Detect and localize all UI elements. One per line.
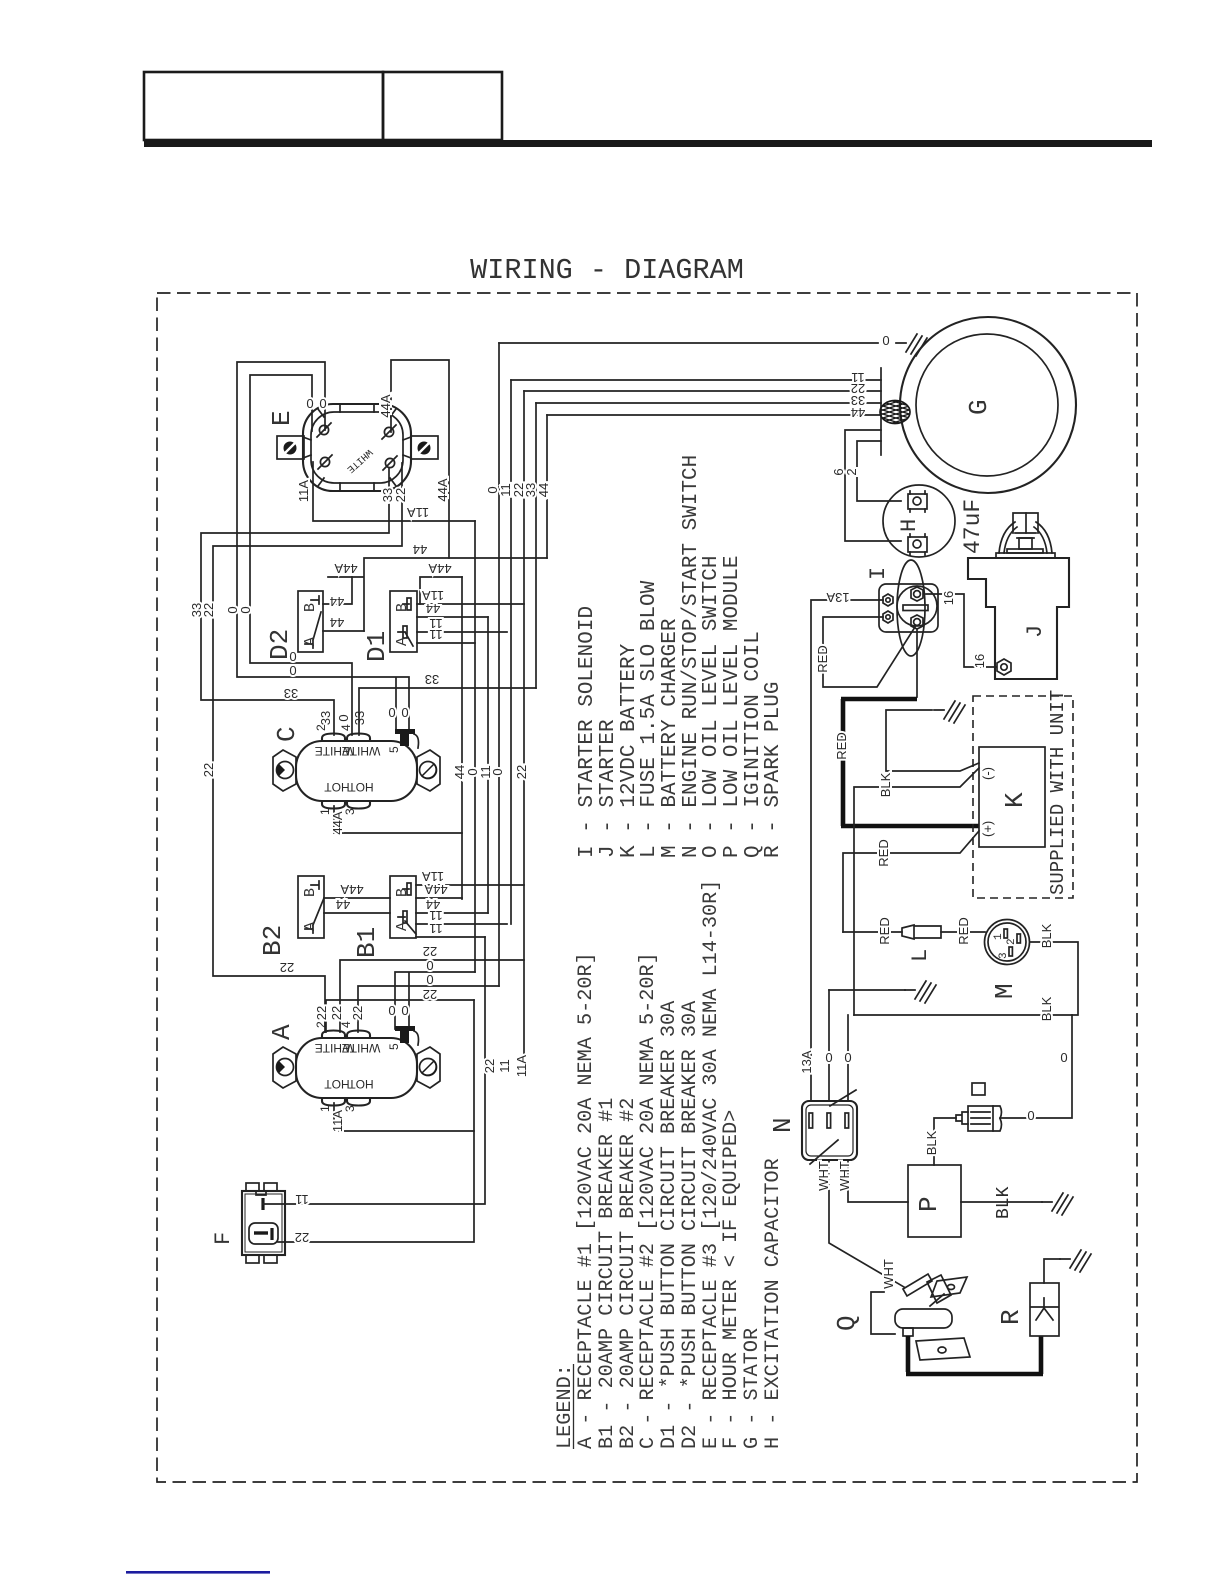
oil switch right wire 0: [1000, 1015, 1072, 1118]
svg-text:A: A: [394, 637, 411, 646]
solenoid hex terminal top: [911, 587, 923, 601]
svg-text:D2: D2: [265, 629, 295, 660]
footer blue rule: [126, 1571, 270, 1574]
wire 11 D1: [417, 631, 507, 633]
svg-text:B: B: [302, 603, 319, 612]
svg-text:44: 44: [426, 601, 440, 616]
WHT wires from switch N: [829, 1160, 904, 1287]
vertical bus 33: [535, 403, 537, 688]
starter J top cap details: [996, 513, 1055, 558]
svg-text:11: 11: [497, 1059, 512, 1073]
wire 2 to capacitor: [857, 441, 901, 501]
svg-text:33: 33: [284, 686, 298, 701]
breaker D1: [390, 591, 417, 652]
svg-text:BLK: BLK: [924, 1130, 939, 1155]
svg-text:33: 33: [318, 711, 333, 725]
solenoid inner circle: [897, 586, 937, 626]
svg-text:BLK: BLK: [994, 1186, 1014, 1219]
svg-text:44A: 44A: [334, 561, 357, 576]
svg-text:BLK: BLK: [878, 772, 893, 797]
oil level switch O: [956, 1083, 1002, 1131]
spark plug R: [1030, 1283, 1059, 1336]
wire 44A from C: [334, 806, 462, 833]
starter solenoid I body: [879, 584, 938, 632]
svg-text:P: P: [914, 1196, 944, 1212]
svg-text:N: N: [768, 1117, 798, 1133]
wire 33 from E to left bus to C: [201, 468, 389, 735]
svg-text:11: 11: [429, 908, 443, 923]
wire run 0b above A: [358, 986, 499, 1032]
svg-text:HOT: HOT: [348, 780, 374, 794]
svg-text:44A: 44A: [340, 882, 363, 897]
svg-text:D1: D1: [362, 631, 392, 662]
wire run 22 above A: [340, 960, 524, 1032]
breaker B2: [298, 876, 324, 938]
svg-text:11: 11: [295, 1192, 309, 1207]
svg-text:R - SPARK PLUG: R - SPARK PLUG: [762, 682, 785, 858]
svg-text:44: 44: [536, 483, 551, 497]
svg-text:16: 16: [972, 654, 987, 668]
dashed diagram border: [157, 293, 1137, 1482]
svg-text:0: 0: [401, 1003, 408, 1018]
svg-text:33: 33: [425, 672, 439, 687]
ground at stator top: [896, 334, 927, 356]
svg-text:D1 - *PUSH BUTTON CIRCUIT BREA: D1 - *PUSH BUTTON CIRCUIT BREAKER 30A: [658, 1000, 681, 1449]
svg-text:3: 3: [998, 952, 1010, 959]
svg-text:22: 22: [280, 960, 294, 975]
stator G outer circle: [900, 317, 1076, 493]
svg-text:22: 22: [295, 1230, 309, 1245]
svg-text:HOT: HOT: [348, 1077, 374, 1091]
svg-text:44: 44: [336, 897, 350, 912]
svg-text:RED: RED: [815, 645, 830, 672]
svg-text:C: C: [272, 726, 302, 742]
ground wire mid: [829, 989, 905, 991]
svg-text:0: 0: [1060, 1050, 1067, 1065]
battery negative BLK wire: [854, 768, 979, 1015]
capacitor H terminal bottom: [908, 534, 927, 555]
vertical bus 0c: [474, 521, 476, 972]
ground mid: [905, 981, 936, 1003]
svg-text:R: R: [996, 1309, 1026, 1325]
svg-text:F - HOUR METER < IF EQUIPED>: F - HOUR METER < IF EQUIPED>: [720, 1110, 743, 1449]
svg-text:O - LOW OIL LEVEL SWITCH: O - LOW OIL LEVEL SWITCH: [700, 556, 723, 858]
svg-text:G: G: [964, 399, 994, 415]
vertical bus 44 top: [546, 415, 548, 558]
wire 33 to bus: [359, 688, 536, 735]
wire 11A D1.B: [417, 603, 524, 605]
svg-text:22: 22: [314, 1006, 329, 1020]
wire 44A right: [420, 577, 462, 604]
svg-text:RED: RED: [834, 732, 849, 759]
oil switch left wire BLK down to P: [934, 1118, 956, 1165]
stator lead hatched blob: [876, 396, 916, 432]
svg-text:44A: 44A: [330, 811, 345, 834]
svg-text:0: 0: [490, 768, 505, 775]
svg-text:D2 - *PUSH BUTTON CIRCUIT BREA: D2 - *PUSH BUTTON CIRCUIT BREAKER 30A: [679, 1000, 702, 1449]
receptacle E (twist-lock L14-30R): [277, 404, 438, 491]
svg-text:22: 22: [201, 763, 216, 777]
header title block box 1: [144, 72, 383, 140]
svg-text:44: 44: [330, 594, 344, 609]
svg-text:11A: 11A: [296, 480, 311, 502]
battery positive cable: [916, 629, 918, 697]
svg-text:0: 0: [426, 958, 433, 973]
svg-text:5: 5: [387, 1043, 401, 1050]
svg-text:13A: 13A: [799, 1050, 814, 1073]
svg-text:H - EXCITATION CAPACITOR: H - EXCITATION CAPACITOR: [762, 1158, 785, 1449]
ground for battery: [934, 701, 965, 723]
capacitor H circle: [883, 485, 955, 557]
svg-text:J - STARTER: J - STARTER: [597, 719, 620, 858]
svg-text:11A: 11A: [514, 1055, 529, 1077]
svg-text:WHITE: WHITE: [344, 446, 374, 474]
svg-text:WIRING - DIAGRAM: WIRING - DIAGRAM: [470, 254, 744, 287]
svg-text:44A: 44A: [428, 561, 451, 576]
svg-text:2: 2: [1006, 938, 1018, 945]
receptacle A (duplex 5-20R): [273, 1026, 440, 1106]
svg-text:B: B: [302, 888, 319, 897]
svg-text:44: 44: [413, 542, 427, 557]
svg-text:WHT: WHT: [837, 1161, 852, 1191]
wire 44 B2: [324, 912, 488, 914]
header title block box 2: [383, 72, 502, 140]
svg-text:0: 0: [882, 333, 889, 348]
charger BLK wire: [854, 942, 1078, 1015]
wire 0 from E to left bus: [237, 362, 409, 732]
svg-text:M: M: [990, 983, 1020, 999]
svg-text:F: F: [211, 1232, 236, 1245]
R ground wire: [1044, 1259, 1060, 1283]
svg-text:I - STARTER SOLENOID: I - STARTER SOLENOID: [576, 606, 599, 858]
spark plug high tension cable: [906, 1336, 1043, 1374]
svg-text:1: 1: [993, 933, 1005, 940]
svg-text:BLK: BLK: [1039, 996, 1054, 1021]
battery positive RED wire down: [843, 831, 979, 932]
wire 0 to switch N: [828, 990, 830, 1101]
svg-text:11A: 11A: [407, 505, 429, 520]
wire 11 run to stator: [511, 379, 881, 381]
svg-text:B1 - 20AMP CIRCUIT BREAKER #1: B1 - 20AMP CIRCUIT BREAKER #1: [596, 1098, 619, 1449]
svg-text:22: 22: [329, 1006, 344, 1020]
wire 11 B1 lower: [416, 936, 485, 938]
battery K dashed enclosure: [973, 696, 1073, 898]
svg-text:0: 0: [306, 396, 313, 411]
svg-text:0: 0: [336, 714, 351, 721]
svg-text:0: 0: [1027, 1108, 1034, 1123]
svg-text:44A: 44A: [424, 882, 447, 897]
wire 44A B2-B1: [324, 897, 390, 899]
svg-text:HOT: HOT: [324, 1077, 350, 1091]
svg-text:(-): (-): [980, 767, 995, 780]
svg-text:WHITE: WHITE: [342, 744, 381, 758]
wire 11 D1 lower: [417, 642, 475, 644]
svg-text:HOT: HOT: [324, 780, 350, 794]
svg-text:4: 4: [339, 1021, 353, 1028]
wire 44 D2.A: [323, 630, 364, 632]
svg-text:A: A: [267, 1024, 297, 1040]
wire RED from solenoid screw: [823, 617, 915, 687]
fuse L body: [902, 925, 941, 939]
capacitor H terminal top: [908, 491, 927, 512]
svg-text:A: A: [302, 922, 319, 931]
svg-text:WHT: WHT: [881, 1259, 896, 1289]
svg-text:2: 2: [844, 468, 859, 475]
battery K box: [979, 747, 1045, 847]
wire 0b to switch N: [847, 1015, 849, 1101]
starter solenoid I backing oval: [897, 560, 925, 656]
vertical bus 11: [510, 380, 512, 924]
solenoid hex terminal bottom: [911, 615, 923, 629]
svg-text:22: 22: [393, 488, 408, 502]
svg-text:22: 22: [423, 944, 437, 959]
stator bus bar: [880, 368, 882, 455]
svg-text:22: 22: [201, 603, 216, 617]
wire run 22b above A: [326, 1000, 474, 1032]
svg-text:0: 0: [289, 663, 296, 678]
wire 44A from E: [391, 360, 449, 558]
oil level module P: [908, 1165, 961, 1237]
svg-text:RED: RED: [877, 917, 892, 944]
battery negative wire to ground: [886, 710, 979, 771]
svg-text:0: 0: [388, 1003, 395, 1018]
svg-text:22: 22: [514, 765, 529, 779]
svg-text:RED: RED: [956, 917, 971, 944]
svg-text:B: B: [394, 888, 411, 897]
svg-text:P - LOW OIL LEVEL MODULE: P - LOW OIL LEVEL MODULE: [721, 556, 744, 858]
svg-text:C - RECEPTACLE #2 [120VAC 20A: C - RECEPTACLE #2 [120VAC 20A NEMA 5-20R…: [637, 952, 660, 1449]
wire 0 second from E: [250, 375, 352, 735]
svg-text:H: H: [897, 519, 922, 532]
wire 33 run to stator: [536, 402, 881, 404]
wire 11A from E: [313, 462, 475, 521]
solenoid left screw terminals: [883, 594, 893, 606]
wire 11A from A: [334, 1103, 474, 1131]
wire 22 from F: [278, 1000, 474, 1242]
svg-text:13A: 13A: [826, 590, 849, 605]
wire run 0 above A: [395, 972, 475, 1029]
svg-text:B: B: [394, 603, 411, 612]
svg-text:0: 0: [401, 705, 408, 720]
svg-text:47uF: 47uF: [960, 499, 986, 554]
wire 44A zigzag: [328, 558, 547, 631]
wire 44A B1 right: [416, 897, 462, 899]
vertical bus 22: [523, 391, 525, 1066]
wire 44 D1: [417, 616, 488, 618]
engine switch N: [802, 1090, 857, 1164]
svg-text:3: 3: [343, 1105, 357, 1112]
vertical bus 44: [461, 577, 463, 899]
wire 6 to capacitor: [845, 430, 901, 541]
svg-text:A - RECEPTACLE #1 [120VAC 20A: A - RECEPTACLE #1 [120VAC 20A NEMA 5-20R…: [575, 952, 598, 1449]
svg-text:44A: 44A: [378, 394, 393, 417]
battery charger connector M: [985, 920, 1030, 965]
svg-text:4: 4: [339, 724, 353, 731]
svg-text:A: A: [394, 922, 411, 931]
wire 11 B1: [416, 923, 507, 925]
svg-text:RED: RED: [876, 839, 891, 866]
svg-text:0: 0: [426, 972, 433, 987]
svg-text:44: 44: [330, 615, 344, 630]
P ground wire BLK: [961, 1201, 1042, 1203]
svg-text:BLK: BLK: [1039, 923, 1054, 948]
svg-text:M - BATTERY CHARGER: M - BATTERY CHARGER: [659, 618, 682, 858]
svg-text:0: 0: [844, 1050, 851, 1065]
wire 44 D2.B up: [323, 577, 352, 604]
svg-text:44: 44: [851, 405, 865, 420]
svg-text:B1: B1: [352, 927, 382, 958]
svg-text:K: K: [1000, 792, 1030, 808]
svg-text:11A: 11A: [330, 1110, 345, 1132]
svg-text:SUPPLIED WITH UNIT: SUPPLIED WITH UNIT: [1047, 690, 1069, 895]
svg-text:J: J: [1023, 625, 1048, 638]
wire 13A from solenoid: [811, 600, 883, 1101]
svg-text:0: 0: [388, 705, 395, 720]
wire 0 top run to stator ground: [499, 342, 878, 344]
svg-text:11A: 11A: [422, 869, 444, 884]
svg-text:3: 3: [343, 808, 357, 815]
svg-text:5: 5: [387, 746, 401, 753]
receptacle C (duplex 5-20R): [273, 729, 440, 809]
svg-text:WHITE: WHITE: [342, 1041, 381, 1055]
solenoid bar: [903, 605, 928, 611]
svg-text:2: 2: [314, 1021, 328, 1028]
wire 22 run to stator: [524, 390, 881, 392]
vertical bus 44b: [487, 617, 489, 913]
svg-text:E: E: [267, 410, 297, 426]
svg-text:I: I: [866, 567, 891, 580]
svg-text:L - FUSE 1.5A SLO BLOW: L - FUSE 1.5A SLO BLOW: [638, 580, 661, 858]
svg-text:B2: B2: [258, 925, 288, 956]
hour meter F: [242, 1183, 285, 1263]
starter J body: [968, 558, 1069, 679]
svg-text:0: 0: [238, 606, 253, 613]
fuse L wire right: [941, 931, 985, 933]
vertical bus 0a: [498, 343, 500, 986]
svg-text:0: 0: [825, 1050, 832, 1065]
svg-text:G - STATOR: G - STATOR: [741, 1328, 764, 1449]
svg-text:22: 22: [482, 1059, 497, 1073]
svg-text:11: 11: [429, 921, 443, 936]
svg-text:2: 2: [314, 724, 328, 731]
svg-text:0: 0: [319, 396, 326, 411]
starter J terminal hex: [997, 659, 1011, 675]
wire 44 run to stator: [547, 414, 881, 416]
svg-text:22: 22: [423, 987, 437, 1002]
wire 22 from E to left bus to A: [213, 463, 402, 1032]
svg-text:22: 22: [350, 1006, 365, 1020]
svg-text:16: 16: [941, 591, 956, 605]
stator G inner circle: [916, 334, 1058, 476]
breaker D2: [298, 591, 323, 652]
header thick rule: [144, 140, 1152, 147]
svg-text:11A: 11A: [422, 588, 444, 603]
wire 16 solenoid to starter: [926, 594, 996, 667]
svg-text:(+): (+): [980, 821, 995, 837]
ignition coil Q assembly: [871, 1274, 970, 1360]
svg-text:11: 11: [429, 627, 443, 642]
fuse L wire left: [843, 931, 902, 933]
svg-text:A: A: [302, 637, 319, 646]
svg-text:WHT: WHT: [816, 1161, 831, 1191]
wire 11 from F: [263, 937, 485, 1204]
breaker B1: [390, 876, 416, 938]
svg-text:44A: 44A: [435, 478, 450, 501]
svg-text:Q: Q: [832, 1315, 862, 1331]
wire 11A B1 right: [416, 884, 524, 886]
svg-text:L: L: [908, 949, 933, 962]
